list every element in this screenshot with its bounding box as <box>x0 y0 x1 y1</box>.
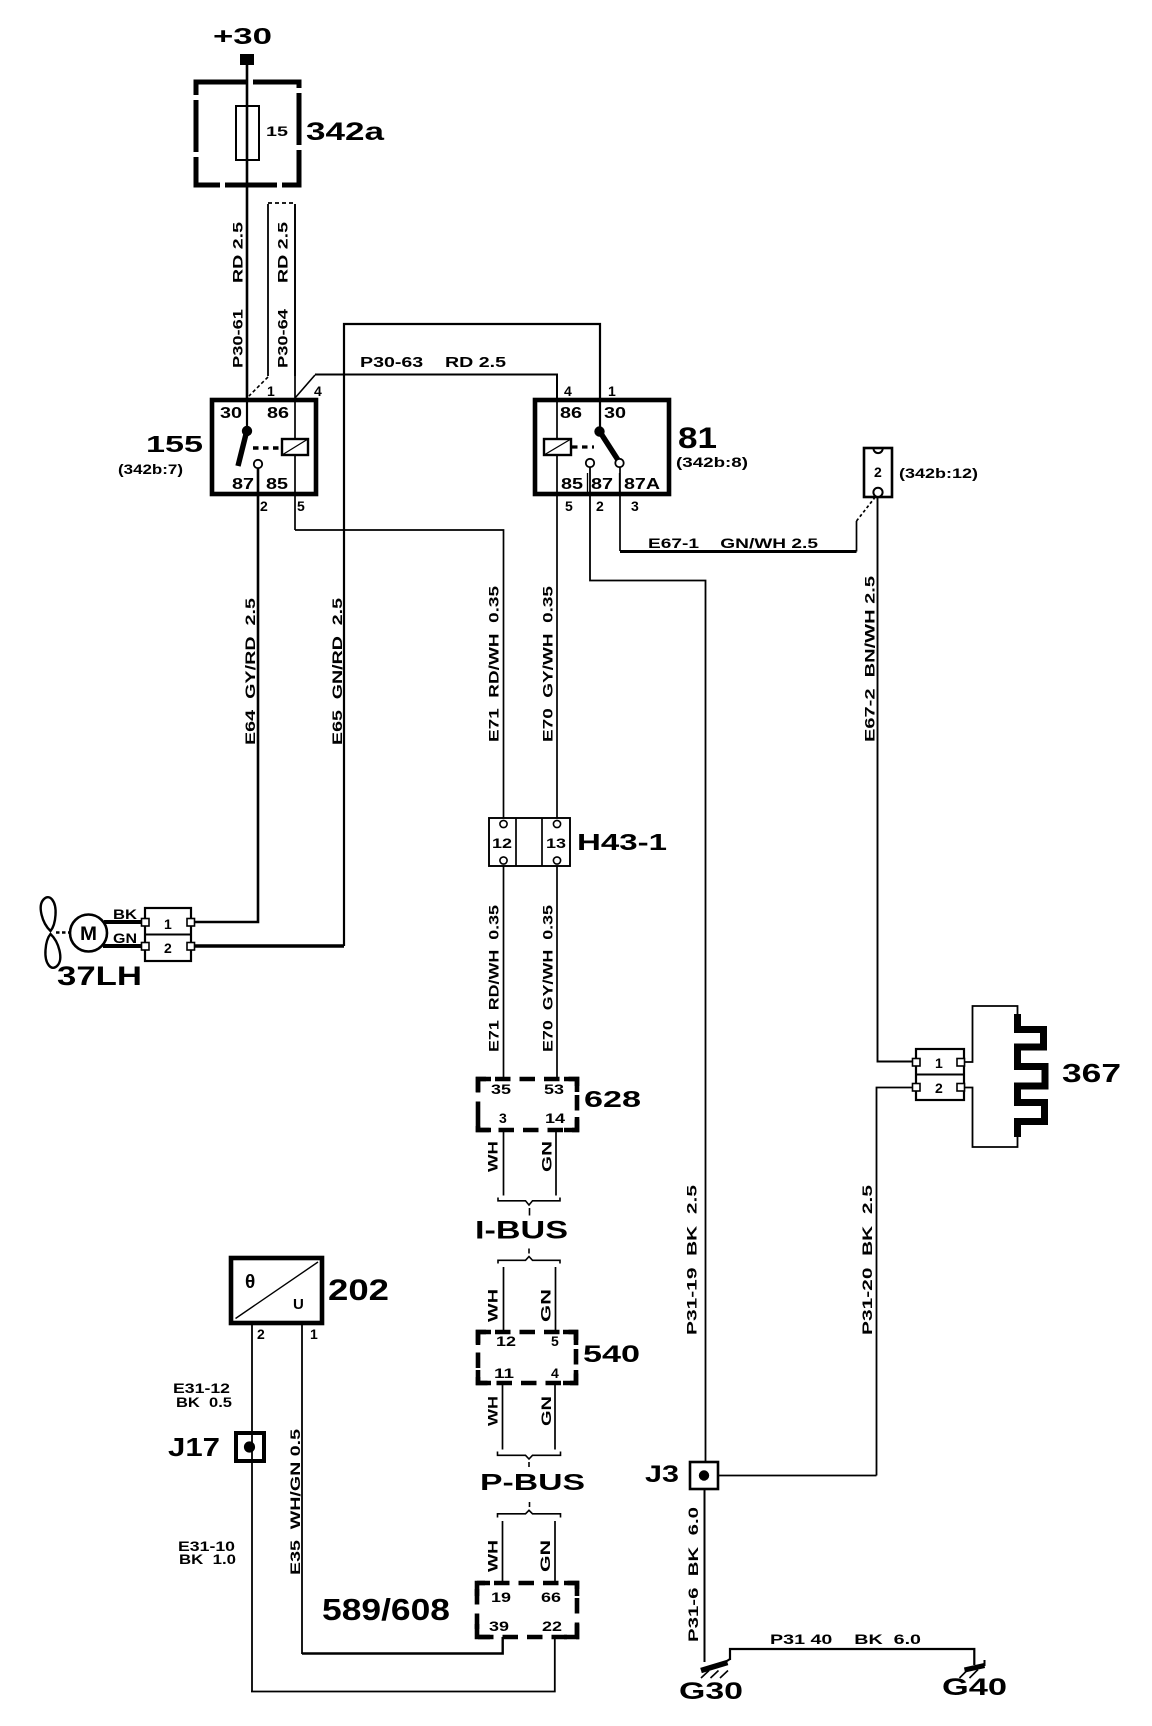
svg-text:87: 87 <box>591 476 613 493</box>
svg-text:θ: θ <box>245 1272 255 1293</box>
wire GN (628 pin14 to I-BUS) <box>555 1130 557 1196</box>
svg-text:P30-64: P30-64 <box>275 309 291 368</box>
wire motor to connector pin2 (GN) <box>103 944 146 948</box>
relay 155 actuation dashed link <box>253 446 281 450</box>
wire WH (P-BUS to 589/608 pin19) <box>502 1521 504 1583</box>
propeller <box>41 897 56 931</box>
relay 155 contact 87 <box>254 460 262 468</box>
wire P30-61 RD 2.5 (fuse feed, vertical) <box>246 65 249 399</box>
wire WH (I-BUS to 540 pin12) <box>503 1267 505 1332</box>
svg-text:1: 1 <box>608 383 616 399</box>
svg-text:87: 87 <box>232 476 254 493</box>
wire 589/608 pin39 to 202 pin1 <box>302 1637 503 1654</box>
svg-text:30: 30 <box>220 405 242 422</box>
svg-text:367: 367 <box>1062 1058 1121 1088</box>
svg-text:G40: G40 <box>942 1674 1007 1701</box>
svg-text:E67-2 BN/WH 2.5: E67-2 BN/WH 2.5 <box>862 576 878 742</box>
svg-text:155: 155 <box>146 431 203 457</box>
svg-text:19: 19 <box>491 1589 511 1605</box>
svg-text:14: 14 <box>545 1110 565 1126</box>
svg-text:P31-20 BK 2.5: P31-20 BK 2.5 <box>859 1185 875 1335</box>
relay 155 <box>212 400 316 494</box>
relay 81 coil <box>544 439 571 455</box>
svg-text:WH: WH <box>485 1540 501 1572</box>
svg-text:1: 1 <box>935 1055 943 1071</box>
fan connector <box>142 908 195 961</box>
I-BUS upper tick <box>529 1208 531 1216</box>
svg-text:E70 GY/WH 0.35: E70 GY/WH 0.35 <box>540 905 556 1052</box>
P-BUS upper bracket <box>498 1452 561 1460</box>
wire coil feed pin4 to pin5 (x=295) <box>294 204 296 530</box>
wire WH (628 pin3 to I-BUS) <box>503 1130 505 1196</box>
svg-text:540: 540 <box>583 1341 640 1368</box>
relay 81 contact 87A <box>615 459 623 467</box>
connector 540 (dashed) <box>478 1332 576 1383</box>
svg-text:GN: GN <box>537 1540 553 1572</box>
fan motor 37LH <box>41 897 107 968</box>
shaft (dashed) <box>56 931 70 934</box>
fuse box 342a (dashed enclosure) <box>196 82 299 185</box>
svg-text:1: 1 <box>164 916 172 932</box>
wire P31-19 (relay81 pin2 to J3) <box>590 467 706 1462</box>
svg-text:35: 35 <box>491 1081 511 1097</box>
svg-text:WH: WH <box>485 1396 501 1426</box>
svg-text:5: 5 <box>297 498 305 514</box>
svg-text:11: 11 <box>494 1365 514 1381</box>
svg-text:P30-61: P30-61 <box>230 309 246 368</box>
svg-text:2: 2 <box>257 1326 265 1342</box>
svg-text:81: 81 <box>678 422 717 455</box>
svg-text:E71 RD/WH 0.35: E71 RD/WH 0.35 <box>486 905 502 1052</box>
motor M <box>70 915 107 952</box>
connector 367 <box>913 1049 965 1100</box>
svg-text:39: 39 <box>489 1618 509 1634</box>
wire E65 fan link (y=946) <box>191 944 344 947</box>
svg-text:12: 12 <box>492 835 512 851</box>
wire E35 WH/GN 0.5 (202 pin1 down) <box>301 1323 303 1654</box>
svg-text:342a: 342a <box>306 118 386 146</box>
svg-text:2: 2 <box>935 1080 943 1096</box>
relay 155 switch contact 30 (armature) <box>238 399 252 466</box>
svg-text:J3: J3 <box>645 1461 679 1488</box>
wire P31-6 BK 6.0 (J3 down to G30) <box>704 1489 706 1662</box>
svg-text:22: 22 <box>542 1618 562 1634</box>
ground branch wire P31 40 BK 6.0 (to G40) <box>730 1649 974 1665</box>
connector 342b:12 pin 2 <box>864 448 892 497</box>
svg-text:U: U <box>293 1296 304 1313</box>
svg-text:12: 12 <box>496 1333 516 1349</box>
svg-text:WH: WH <box>485 1141 501 1172</box>
svg-text:589/608: 589/608 <box>322 1592 450 1627</box>
svg-text:(342b:12): (342b:12) <box>899 465 978 481</box>
svg-text:37LH: 37LH <box>57 961 142 991</box>
connector 589/608 (dashed) <box>477 1583 577 1637</box>
svg-text:85: 85 <box>266 476 288 493</box>
svg-text:202: 202 <box>328 1274 389 1307</box>
connector H43-1 <box>489 818 570 866</box>
svg-text:E67-1 GN/WH 2.5: E67-1 GN/WH 2.5 <box>648 535 818 551</box>
label E31-12 BK 0.5 <box>173 1380 232 1410</box>
wire E71 lower (H43-1 pin12 to 628 pin35) <box>503 866 505 1079</box>
svg-text:66: 66 <box>541 1589 561 1605</box>
label E31-10 BK 1.0 <box>178 1538 236 1567</box>
svg-text:5: 5 <box>565 498 573 514</box>
svg-text:4: 4 <box>551 1365 559 1381</box>
ground G30 <box>701 1663 728 1679</box>
svg-text:15: 15 <box>266 123 288 139</box>
heater element 367 feed bottom <box>965 1088 1018 1148</box>
svg-text:3: 3 <box>499 1110 507 1126</box>
I-BUS lower tick <box>528 1249 530 1254</box>
relay 81 actuation dashed link <box>572 445 594 448</box>
wire GN (P-BUS to 589/608 pin66) <box>554 1521 556 1583</box>
relay 81 coil feed wire (x=557) <box>556 400 558 494</box>
svg-text:5: 5 <box>551 1333 559 1349</box>
svg-text:E70 GY/WH 0.35: E70 GY/WH 0.35 <box>540 586 556 742</box>
svg-text:86: 86 <box>560 405 582 422</box>
svg-text:+30: +30 <box>213 23 272 49</box>
P-BUS upper tick <box>528 1462 530 1467</box>
junction J17 <box>236 1433 264 1461</box>
wire P31-20 BK 2.5 (367 pin2 down to J3 wire) <box>877 1088 913 1476</box>
heater element 367 feed top <box>965 1006 1018 1062</box>
svg-text:H43-1: H43-1 <box>577 829 667 855</box>
relay 81 <box>535 400 669 494</box>
svg-text:GN: GN <box>113 930 137 946</box>
P-BUS lower bracket <box>498 1510 561 1517</box>
svg-text:RD 2.5: RD 2.5 <box>230 222 246 283</box>
wire E70 GY/WH (relay81 pin5 down to H43-1 pin13) <box>556 494 558 818</box>
ground G40 <box>960 1660 985 1678</box>
wire P30-63 RD 2.5 (to relay 81 pin 4) <box>295 375 557 401</box>
svg-text:G30: G30 <box>679 1678 743 1705</box>
svg-text:30: 30 <box>604 405 626 422</box>
svg-text:3: 3 <box>631 498 639 514</box>
svg-text:WH: WH <box>485 1289 501 1322</box>
svg-text:E71 RD/WH 0.35: E71 RD/WH 0.35 <box>486 586 502 742</box>
svg-text:P31-19 BK 2.5: P31-19 BK 2.5 <box>684 1185 700 1335</box>
wire E64 GY/RD 2.5 (relay155 pin2 to fan pin1) <box>191 468 258 922</box>
relay 81 switch contact 30 <box>594 400 618 460</box>
svg-text:2: 2 <box>596 498 604 514</box>
svg-text:4: 4 <box>564 383 572 399</box>
svg-text:BK: BK <box>113 906 137 922</box>
I-BUS upper bracket <box>498 1198 560 1206</box>
svg-text:GN: GN <box>538 1396 554 1426</box>
svg-text:(342b:8): (342b:8) <box>676 454 748 470</box>
svg-text:2: 2 <box>260 498 268 514</box>
svg-text:I-BUS: I-BUS <box>475 1217 568 1245</box>
relay 81 contact 87 <box>586 459 594 467</box>
svg-text:E65 GN/RD 2.5: E65 GN/RD 2.5 <box>329 598 345 745</box>
svg-text:628: 628 <box>584 1086 641 1112</box>
svg-text:P31-6 BK 6.0: P31-6 BK 6.0 <box>685 1507 701 1642</box>
svg-text:GN: GN <box>539 1141 555 1172</box>
wire GN (540 pin4 to P-BUS) <box>554 1383 556 1450</box>
wire E67-2 BN/WH 2.5 (connector to 367 pin1) <box>878 497 913 1062</box>
svg-text:BK 1.0: BK 1.0 <box>179 1551 236 1567</box>
wire E71 upper (relay155 pin5 to H43-1 pin12) <box>295 530 504 818</box>
wire motor to connector pin1 (BK) <box>104 920 146 924</box>
fuse F15 element <box>236 106 259 160</box>
svg-text:87A: 87A <box>624 476 660 493</box>
junction J3 <box>690 1462 718 1489</box>
svg-text:13: 13 <box>546 835 566 851</box>
wire 202 pin2 down through J17 (E31-12 / E31-10) <box>251 1323 253 1692</box>
wire GN (I-BUS to 540 pin5) <box>555 1267 557 1332</box>
heater element 367 meander <box>1018 1014 1046 1137</box>
node +30 supply <box>213 23 272 65</box>
wire WH (540 pin11 to P-BUS) <box>502 1383 504 1450</box>
svg-text:P31 40 BK 6.0: P31 40 BK 6.0 <box>770 1631 921 1647</box>
svg-text:E35 WH/GN 0.5: E35 WH/GN 0.5 <box>287 1429 303 1575</box>
svg-text:2: 2 <box>164 940 172 956</box>
svg-text:53: 53 <box>544 1081 564 1097</box>
wire P30-64 RD 2.5 (channel rectangle) <box>249 203 295 396</box>
svg-text:1: 1 <box>310 1326 318 1342</box>
wire 589/608 pin22 to 202 pin2 / J17 <box>251 1637 555 1692</box>
wire E70 lower (H43-1 pin13 to 628 pin53) <box>556 866 558 1079</box>
svg-text:M: M <box>80 924 97 945</box>
connector 628 (dashed) <box>478 1079 577 1130</box>
svg-text:2: 2 <box>874 464 882 480</box>
wire E65 top run (relay 81 pin 1 to fan, y=324) <box>344 324 600 946</box>
svg-text:RD 2.5: RD 2.5 <box>275 222 291 283</box>
svg-text:85: 85 <box>561 476 583 493</box>
svg-text:1: 1 <box>267 383 275 399</box>
svg-text:BK 0.5: BK 0.5 <box>176 1394 232 1410</box>
svg-text:(342b:7): (342b:7) <box>118 461 183 477</box>
wire E67-1 GN/WH 2.5 (relay81 pin3 to connector 342b:12) <box>620 467 875 552</box>
svg-text:P-BUS: P-BUS <box>480 1469 585 1495</box>
relay 155 coil U1 <box>282 439 308 455</box>
wire J3 to P31-20 riser <box>718 1475 877 1477</box>
svg-text:4: 4 <box>314 383 322 399</box>
svg-text:P30-63 RD 2.5: P30-63 RD 2.5 <box>360 354 506 371</box>
svg-text:J17: J17 <box>168 1432 220 1462</box>
svg-text:GN: GN <box>538 1289 554 1322</box>
svg-text:86: 86 <box>267 405 289 422</box>
temperature sensor 202 <box>231 1258 322 1323</box>
svg-text:E64 GY/RD 2.5: E64 GY/RD 2.5 <box>242 598 258 745</box>
P-BUS lower tick <box>529 1502 531 1507</box>
I-BUS lower bracket <box>498 1257 560 1264</box>
